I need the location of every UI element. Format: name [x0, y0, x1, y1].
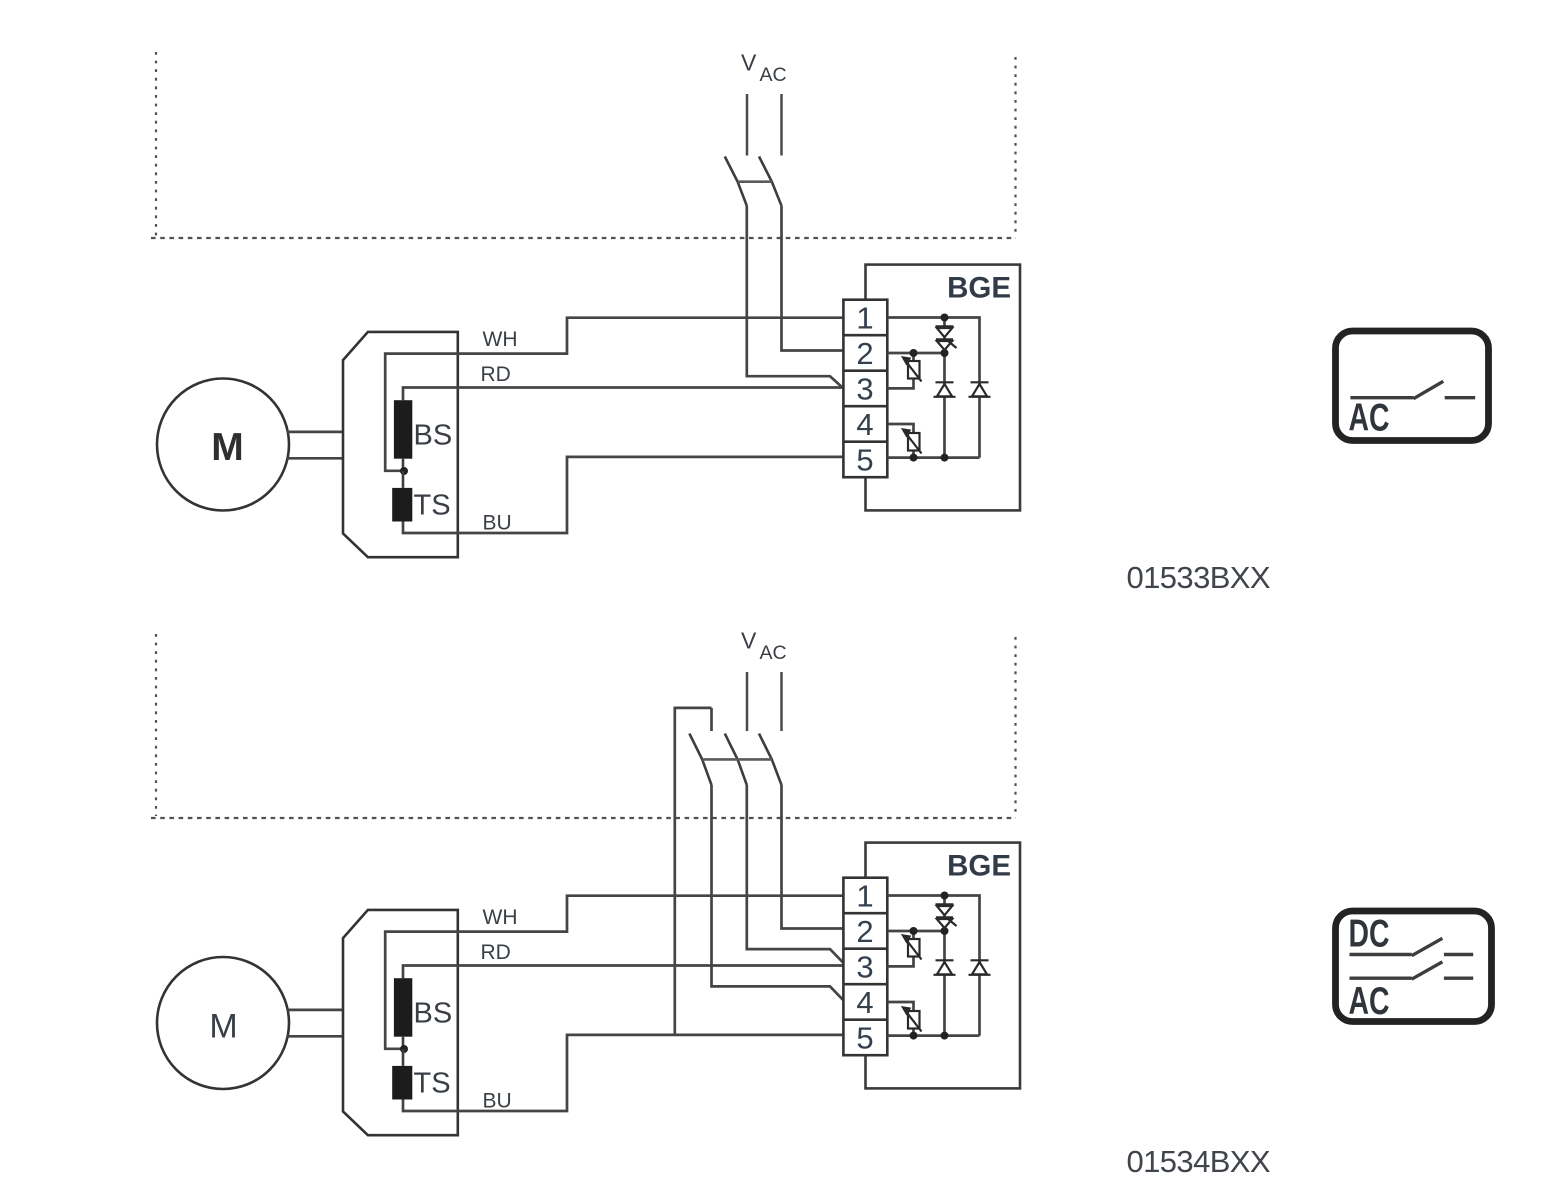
svg-text:4: 4 [856, 985, 873, 1020]
svg-text:4: 4 [856, 407, 873, 442]
junction node rail/switch E2 [910, 454, 918, 462]
svg-text:DC: DC [1349, 913, 1390, 956]
svg-text:M: M [211, 426, 244, 469]
junction node terminal2/varistor [941, 349, 949, 357]
svg-text:AC: AC [1349, 397, 1390, 440]
svg-text:WH: WH [483, 906, 518, 929]
wire: center branch (diagram 2) [943, 896, 946, 1036]
wire: BS bottom to junction (diagram 2) [402, 1037, 405, 1049]
switch S1 coupling bar [738, 180, 772, 183]
svg-text:01534BXX: 01534BXX [1127, 1144, 1271, 1179]
wire: AC supply stub right (diagram 2) [780, 672, 783, 731]
svg-text:TS: TS [414, 1068, 451, 1100]
brake coil TS (diagram 2) [392, 1066, 412, 1100]
varistor RU (diagram 2) [936, 904, 957, 928]
svg-text:BU: BU [483, 512, 512, 535]
terminal divider 3/4 (diagram 2) [843, 983, 887, 986]
wire: DC-side loop top bar and left drop to terminal 5 rail [675, 708, 712, 1034]
DIAGRAM1 [151, 628, 1492, 1180]
net label VAC (diagram 1) [741, 50, 787, 87]
wire RD: coil BS top to terminal 3 (diagram 2) [403, 966, 844, 979]
diode D1 center (diagram 1) [934, 382, 956, 397]
svg-text:RD: RD [481, 941, 511, 964]
junction node rail/switch E2 (diagram 2) [910, 1032, 918, 1040]
wire: terminal 3 to switch E1 [887, 353, 913, 388]
control cabinet boundary (dashed), diagram 2 left side [155, 634, 157, 816]
svg-text:1: 1 [856, 301, 873, 336]
wire: S2 pole 3 to terminal 2 [782, 785, 844, 929]
switch S2 pole 1 blade [689, 734, 711, 785]
electronic switch E1 (diagram 1) [903, 358, 922, 382]
control cabinet boundary (dashed), diagram 1 bottom [151, 237, 1016, 239]
switch S2 pole 2 blade [725, 734, 747, 785]
svg-text:2: 2 [856, 336, 873, 371]
terminal divider 1/2 [843, 334, 887, 337]
brake housing outline (diagram 1) [343, 332, 458, 557]
svg-text:3: 3 [856, 372, 873, 407]
motor shaft lower line [287, 457, 343, 460]
wire: junction to TS top [402, 471, 405, 488]
legend icon: AC-side disconnect box [1336, 331, 1489, 441]
svg-text:V: V [741, 628, 757, 654]
terminal divider 1/2 (diagram 2) [843, 912, 887, 915]
terminal divider 3/4 [843, 405, 887, 408]
diode D2 right (diagram 1) [969, 382, 991, 397]
svg-text:5: 5 [856, 443, 873, 478]
wire BU: coil TS bottom to terminal 5 [403, 457, 844, 533]
wire: terminal 1 to right branch (diagram 2) [887, 896, 979, 1036]
junction node rail/center [941, 454, 949, 462]
terminal strip X1 body (diagram 2) [843, 878, 887, 1055]
wire BU: coil TS bottom to terminal 5 (diagram 2) [403, 1035, 844, 1111]
svg-text:M: M [209, 1008, 237, 1046]
motor M circle (diagram 1) [157, 379, 289, 511]
wire: terminal 4 to switch E2 [887, 424, 913, 458]
electronic switch E2 (diagram 1) [903, 430, 922, 454]
svg-text:V: V [741, 50, 757, 76]
svg-text:3: 3 [856, 950, 873, 985]
brake coil TS (diagram 1) [392, 488, 412, 522]
svg-text:TS: TS [414, 490, 451, 522]
junction node BS/TS/WH (diagram 2) [400, 1045, 408, 1053]
wire: AC supply stub right (diagram 1) [780, 94, 783, 156]
junction node terminal1/varistor (diagram 2) [941, 892, 949, 900]
wire: S2 pole 2 to terminal 3 [747, 785, 844, 963]
svg-text:AC: AC [760, 64, 787, 86]
wire: AC supply stub left (diagram 1) [746, 94, 749, 156]
svg-text:01533BXX: 01533BXX [1127, 560, 1271, 595]
BGE rectifier box (diagram 2) [866, 843, 1021, 1089]
svg-text:AC: AC [1349, 980, 1390, 1023]
svg-text:RD: RD [481, 363, 511, 386]
svg-text:BS: BS [414, 998, 453, 1030]
wire: terminal 2 to center branch (diagram 2) [887, 930, 944, 933]
diode D1 center (diagram 2) [934, 960, 956, 975]
wire: terminal 5 rail (diagram 1) [887, 456, 979, 459]
electronic switch E2 (diagram 2) [903, 1008, 922, 1032]
junction node terminal2/switch E1 (diagram 2) [910, 927, 918, 935]
electronic switch E1 (diagram 2) [903, 936, 922, 960]
svg-text:2: 2 [856, 914, 873, 949]
svg-text:BU: BU [483, 1090, 512, 1113]
brake coil BS (diagram 2) [394, 978, 412, 1036]
svg-text:AC: AC [760, 642, 787, 664]
svg-text:5: 5 [856, 1021, 873, 1056]
motor shaft lower line (diagram 2) [287, 1035, 343, 1038]
varistor RU (diagram 1) [936, 326, 957, 350]
wire: terminal 5 rail (diagram 2) [887, 1034, 979, 1037]
terminal divider 2/3 [843, 369, 887, 372]
control cabinet boundary (dashed), diagram 2 bottom [151, 817, 1016, 819]
junction node rail/center (diagram 2) [941, 1032, 949, 1040]
wire: S1 pole 1 to terminal 3 [747, 206, 844, 389]
wire: junction to TS top (diagram 2) [402, 1049, 405, 1066]
svg-text:BS: BS [414, 420, 453, 452]
wire: AC supply stub left (diagram 2) [746, 672, 749, 731]
switch S1 pole 2 blade [759, 157, 782, 206]
wire: S1 pole 2 to terminal 2 [782, 206, 844, 351]
brake housing outline (diagram 2) [343, 910, 458, 1135]
wire: BS bottom to junction [402, 459, 405, 471]
wire: center branch (diagram 1) [943, 318, 946, 458]
terminal strip X1 body (diagram 1) [843, 300, 887, 478]
brake coil BS (diagram 1) [394, 400, 412, 459]
wire: terminal 1 to right branch (diagram 1) [887, 318, 979, 458]
wire: terminal 4 to switch E2 (diagram 2) [887, 1002, 913, 1036]
switch S2 pole 3 blade [759, 734, 782, 785]
motor M circle (diagram 2) [157, 957, 289, 1089]
wire WH: brake junction to terminal 1 [385, 318, 844, 471]
net label VAC (diagram 2) [741, 628, 787, 665]
svg-text:WH: WH [483, 328, 518, 351]
junction node terminal2/varistor (diagram 2) [941, 927, 949, 935]
wire: switch S2 pole 1 top stub [710, 708, 713, 731]
diode D2 right (diagram 2) [969, 960, 991, 975]
motor shaft upper line (diagram 2) [287, 1009, 343, 1012]
BGE rectifier box (diagram 1) [866, 265, 1021, 511]
junction node terminal1/varistor [941, 314, 949, 322]
svg-text:1: 1 [856, 879, 873, 914]
wire: S2 pole 1 to terminal 4 [712, 785, 844, 1001]
terminal divider 4/5 [843, 440, 887, 443]
legend icon: DC and AC-side disconnect box [1336, 911, 1492, 1023]
wire RD: coil BS top to terminal 3 [403, 388, 844, 401]
junction node BS/TS/WH (diagram 1) [400, 467, 408, 475]
control cabinet boundary (dashed), diagram 1 left side [155, 52, 157, 236]
svg-text:BGE: BGE [947, 272, 1011, 305]
switch S2 coupling bar [702, 758, 772, 761]
junction node terminal2/switch E1 [910, 349, 918, 357]
control cabinet boundary (dashed), diagram 2 right side [1014, 637, 1016, 816]
control cabinet boundary (dashed), diagram 1 right side [1014, 57, 1016, 236]
terminal divider 4/5 (diagram 2) [843, 1018, 887, 1021]
motor shaft upper line [287, 431, 343, 434]
switch S1 pole 1 blade [725, 157, 747, 206]
wire WH: brake junction to terminal 1 (diagram 2) [385, 896, 844, 1049]
wire: terminal 2 to center branch [887, 352, 944, 355]
svg-text:BGE: BGE [947, 850, 1011, 883]
terminal divider 2/3 (diagram 2) [843, 947, 887, 950]
wire: terminal 3 to switch E1 (diagram 2) [887, 931, 913, 966]
